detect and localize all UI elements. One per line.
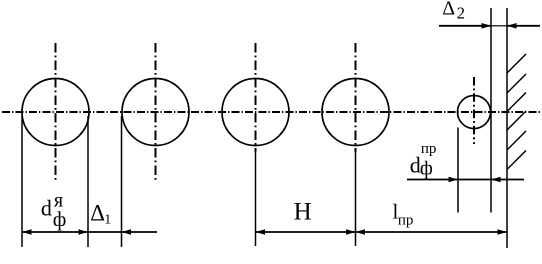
svg-text:ф: ф — [420, 158, 433, 180]
svg-text:пр: пр — [398, 212, 414, 228]
vertical centerline of hole 2 — [155, 43, 157, 182]
arrow left-pointing at 121.5 (Delta1) — [122, 229, 132, 235]
svg-text:пр: пр — [421, 141, 437, 157]
vertical centerline of hole 3 — [255, 43, 257, 152]
arrow right-pointing at wall inner line (Delta2) — [482, 23, 492, 29]
arrow left-pointing at 356 (l_pr) — [356, 229, 366, 235]
svg-text:Δ: Δ — [442, 0, 455, 19]
hole 3 circle — [222, 79, 289, 146]
extension line at hole2 left edge — [121, 116, 123, 247]
vertical centerline of small hole 5 — [473, 77, 475, 144]
extension line at hole4 center — [355, 150, 357, 246]
svg-text:2: 2 — [457, 3, 465, 22]
svg-text:1: 1 — [104, 212, 111, 227]
extension line at small hole left edge — [457, 128, 459, 213]
extension line at hole3 center — [255, 150, 257, 246]
horizontal axis centerline — [2, 111, 540, 113]
hole 4 circle — [322, 79, 389, 146]
arrow left-pointing at 491 (d_f_pr) — [491, 177, 501, 183]
wall hatching — [507, 54, 526, 170]
arrow right-pointing at 88 (d_f_ya) — [79, 229, 89, 235]
extension line at hole1 right edge — [87, 116, 89, 247]
wall inner line — [490, 8, 492, 213]
dimension line Delta2 (top) — [439, 25, 540, 27]
vertical centerline of hole 4 — [355, 43, 357, 152]
svg-text:d: d — [41, 196, 52, 221]
svg-text:H: H — [294, 199, 312, 226]
arrow right-pointing at 507 (l_pr) — [498, 229, 508, 235]
hole 2 circle — [122, 79, 189, 146]
arrow left-pointing at wall outer line (Delta2) — [507, 23, 517, 29]
arrow right-pointing at 356 (H) — [346, 229, 356, 235]
hole 1 circle — [22, 79, 89, 146]
arrow right-pointing at 458 (d_f_pr) — [449, 177, 459, 183]
dimension line d_f_pr — [407, 179, 524, 181]
wall outer line — [506, 8, 508, 248]
extension line at hole1 left edge — [21, 116, 23, 247]
dimension line d_f_ya and Delta1 (bottom left) — [22, 231, 157, 233]
arrow left-pointing at 256 (H) — [256, 229, 266, 235]
svg-text:ф: ф — [53, 207, 67, 231]
vertical centerline of hole 1 — [55, 43, 57, 182]
small pilot hole circle — [458, 96, 491, 129]
svg-text:Δ: Δ — [90, 201, 105, 226]
dimension line H and l_pr (bottom right) — [256, 231, 508, 233]
arrow left-pointing at 22 (d_f_ya) — [22, 229, 32, 235]
